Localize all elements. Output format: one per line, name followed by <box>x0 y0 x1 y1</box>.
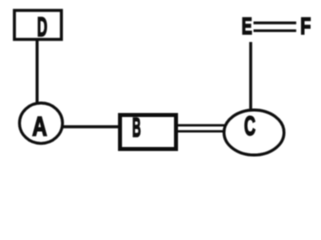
svg-text:A: A <box>32 111 47 141</box>
svg-text:D: D <box>37 12 47 42</box>
svg-text:B: B <box>132 113 141 143</box>
svg-text:F: F <box>300 13 311 39</box>
svg-text:E: E <box>242 13 253 39</box>
svg-text:C: C <box>244 111 255 141</box>
